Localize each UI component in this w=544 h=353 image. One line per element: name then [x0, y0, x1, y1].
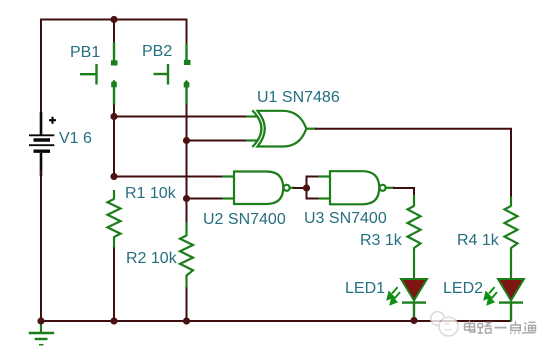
wire PB1 column mid	[113, 116, 115, 178]
LED1 light arrows	[388, 287, 400, 304]
pushbutton PB2	[154, 19, 191, 143]
glyph lu	[478, 323, 492, 334]
label R3 1k	[360, 233, 402, 249]
NAND gate U2 SN7400	[223, 172, 295, 205]
wire PB2 column mid	[186, 140, 188, 201]
pin U2 input 1	[223, 175, 235, 177]
label U2 SN7400	[203, 212, 286, 228]
label PB2	[142, 44, 172, 60]
XOR body	[258, 111, 307, 147]
U2 body	[234, 172, 283, 205]
wire R2 to bottom rail	[186, 288, 188, 323]
U2 bubble	[284, 185, 290, 191]
LED LED1	[388, 279, 427, 322]
resistor R1 10k	[108, 190, 121, 249]
wire top rail	[41, 19, 187, 21]
node B (PB2 / XOR in2)	[183, 137, 190, 144]
node C (U2 out / U3 in)	[303, 184, 310, 191]
node B2 (R2 / U2 in2)	[183, 195, 190, 202]
wire node A to XOR input 1	[113, 116, 248, 118]
pin U2 input 2	[223, 197, 235, 199]
node top rail / PB1	[110, 16, 117, 23]
label R2 10k	[126, 251, 177, 267]
glyph yi	[495, 327, 507, 329]
node A (PB1 / XOR in1)	[110, 113, 117, 120]
pin U3 input 2	[319, 197, 331, 199]
wire R1 to bottom rail	[113, 248, 115, 323]
battery V1	[29, 112, 56, 176]
node R2 / rail	[183, 317, 190, 324]
op-amp? no: XOR gate U1 SN7486	[246, 110, 317, 147]
wire left vertical lower	[40, 170, 42, 322]
wire node B to R2	[186, 199, 188, 224]
glyph dian2	[510, 321, 524, 333]
pushbutton PB1	[80, 20, 118, 119]
resistor R3 1k	[408, 195, 421, 280]
wire bottom rail	[41, 320, 511, 322]
wire node C vertical	[306, 177, 308, 200]
pin U3 input 1	[319, 175, 331, 177]
wire XOR output to R4	[315, 129, 511, 198]
wire node B to XOR input 2	[186, 140, 248, 142]
U3 body	[330, 171, 379, 204]
wire PB1 to node	[113, 105, 115, 119]
wire PB2 to node	[186, 105, 188, 143]
watermark text 电路一点通	[465, 321, 536, 334]
label LED2	[443, 281, 483, 297]
U3 bubble	[380, 185, 386, 191]
node LED1 / rail	[410, 317, 417, 324]
wire node A to U2 input 1	[113, 176, 224, 178]
pin U1 input A	[246, 115, 258, 117]
LED LED2	[485, 279, 524, 322]
label LED1	[345, 281, 385, 297]
wire U2 output to node C	[293, 187, 308, 189]
watermark logo	[431, 312, 458, 336]
glyph dian	[465, 321, 476, 333]
wire node B to U2 input 2	[186, 198, 224, 200]
node R1 / rail	[110, 317, 117, 324]
ground	[29, 321, 55, 345]
label U3 SN7400	[304, 211, 387, 227]
label R1 10k	[125, 186, 176, 202]
wire PB2 top feed	[186, 19, 188, 45]
XOR extra arc	[252, 110, 261, 147]
pin U2 output	[290, 187, 295, 189]
glyph tong	[524, 322, 536, 333]
wire PB1 top feed	[113, 20, 115, 44]
NAND gate U3 SN7400	[319, 171, 395, 204]
wire node C to U3 input 2	[306, 198, 320, 200]
LED2 light arrows	[485, 287, 497, 304]
resistor R4 1k	[505, 197, 518, 280]
label R4 1k	[457, 233, 499, 249]
wire left vertical upper	[40, 19, 42, 121]
wire U3 output to R3	[393, 188, 414, 196]
node A2 (R1 / U2 in1)	[110, 173, 117, 180]
wire node C to U3 input 1	[306, 176, 320, 178]
label PB1	[70, 45, 100, 61]
label U1 SN7486	[257, 90, 340, 106]
resistor R2 10k	[180, 223, 193, 289]
pin U1 output	[305, 128, 317, 130]
node ground	[37, 317, 44, 324]
label V1 6	[59, 131, 92, 147]
pin U3 output	[386, 187, 395, 189]
pin U1 input B	[246, 139, 258, 141]
